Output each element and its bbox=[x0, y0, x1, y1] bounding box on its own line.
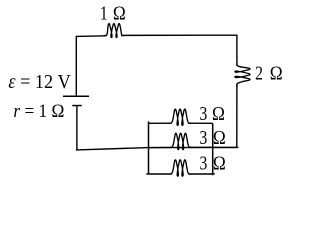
wire: right vertical lower + stub to right bus bbox=[213, 84, 237, 147]
svg-text:ε = 12 V: ε = 12 V bbox=[8, 71, 71, 93]
branch 2 left wire bbox=[149, 146, 173, 148]
svg-text:Ω: Ω bbox=[113, 4, 126, 25]
svg-text:3: 3 bbox=[200, 128, 208, 149]
branch 1 left wire bbox=[149, 122, 172, 124]
branch 2 right wire bbox=[189, 146, 213, 148]
branch 3 right wire bbox=[189, 173, 215, 175]
left bus bbox=[148, 121, 150, 173]
resistor R1 (1 ohm) bbox=[104, 24, 124, 38]
svg-text:3: 3 bbox=[200, 154, 208, 175]
svg-text:Ω: Ω bbox=[213, 154, 226, 175]
battery short plate bbox=[72, 105, 81, 107]
branch 1 right wire bbox=[189, 122, 213, 124]
right bus bbox=[212, 123, 214, 175]
svg-text:Ω: Ω bbox=[212, 104, 225, 125]
wire: left vertical + top-left segment bbox=[76, 36, 106, 96]
resistor R2 (2 ohm) bbox=[235, 63, 250, 86]
resistor R3b (3 ohm) bbox=[170, 133, 192, 149]
wire: battery to bottom rail bbox=[76, 106, 238, 150]
resistor R3a (3 ohm) bbox=[169, 109, 191, 125]
svg-text:Ω: Ω bbox=[270, 64, 283, 85]
battery long plate bbox=[63, 95, 89, 97]
svg-text:3: 3 bbox=[200, 104, 208, 125]
wire: top segment + right vertical upper bbox=[122, 35, 237, 65]
svg-text:1: 1 bbox=[100, 4, 108, 25]
svg-text:2: 2 bbox=[255, 64, 263, 85]
resistor R3c (3 ohm) bbox=[169, 160, 191, 176]
branch 3 left wire bbox=[146, 173, 171, 175]
svg-text:r = 1 Ω: r = 1 Ω bbox=[13, 102, 64, 122]
svg-text:Ω: Ω bbox=[213, 128, 226, 149]
